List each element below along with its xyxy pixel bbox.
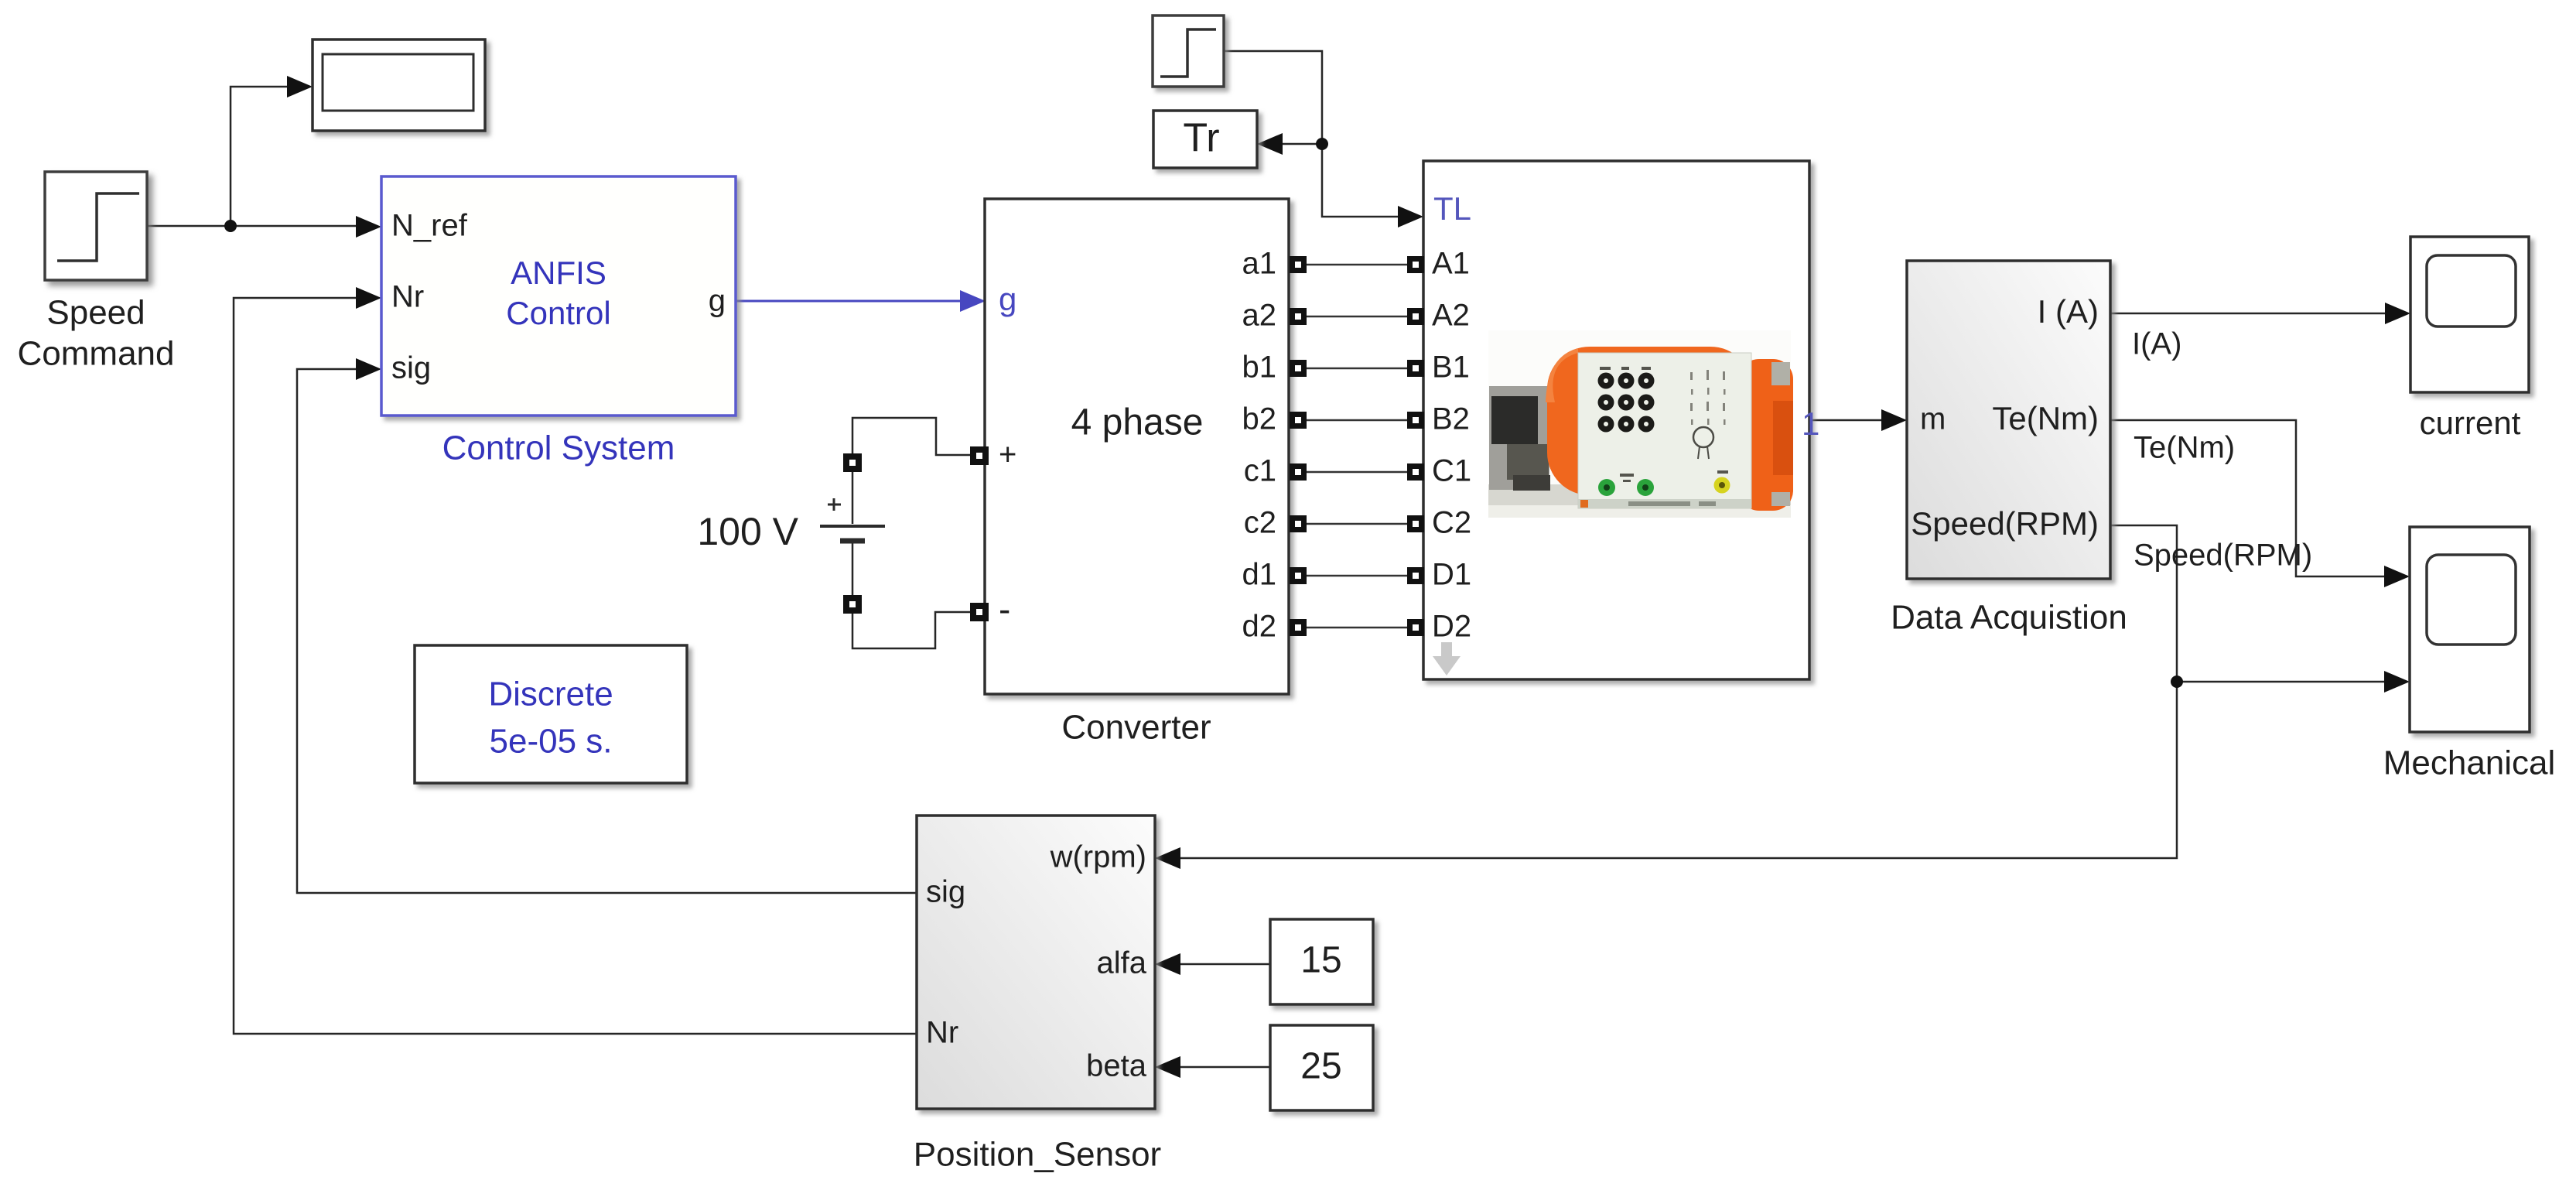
svg-text:g: g xyxy=(709,284,726,318)
svg-text:Speed(RPM): Speed(RPM) xyxy=(1911,505,2099,542)
svg-text:a2: a2 xyxy=(1242,299,1277,333)
svg-text:C2: C2 xyxy=(1432,506,1471,540)
svg-text:+: + xyxy=(999,438,1016,472)
svg-text:Speed(RPM): Speed(RPM) xyxy=(2134,539,2312,573)
svg-text:sig: sig xyxy=(391,351,431,385)
svg-text:B1: B1 xyxy=(1432,351,1470,385)
svg-text:sig: sig xyxy=(926,875,965,909)
svg-text:ANFIS: ANFIS xyxy=(511,255,606,291)
svg-text:a1: a1 xyxy=(1242,247,1277,281)
svg-text:g: g xyxy=(999,281,1016,317)
svg-text:beta: beta xyxy=(1086,1049,1147,1083)
svg-text:w(rpm): w(rpm) xyxy=(1050,840,1146,874)
svg-text:Speed: Speed xyxy=(46,294,145,332)
svg-text:Discrete: Discrete xyxy=(488,676,613,713)
svg-text:15: 15 xyxy=(1300,940,1341,981)
svg-text:25: 25 xyxy=(1300,1046,1341,1087)
svg-text:A2: A2 xyxy=(1432,299,1470,333)
svg-text:Command: Command xyxy=(18,335,175,373)
svg-text:4 phase: 4 phase xyxy=(1071,402,1204,443)
svg-text:d1: d1 xyxy=(1242,558,1277,592)
svg-text:A1: A1 xyxy=(1432,247,1470,281)
svg-text:I(A): I(A) xyxy=(2132,327,2181,361)
svg-text:Te(Nm): Te(Nm) xyxy=(1992,400,2099,436)
svg-text:Tr: Tr xyxy=(1183,116,1219,161)
svg-text:TL: TL xyxy=(1433,190,1471,227)
svg-text:C1: C1 xyxy=(1432,454,1471,488)
svg-text:m: m xyxy=(1920,402,1946,436)
svg-text:Data Acquistion: Data Acquistion xyxy=(1891,599,2127,637)
svg-text:Te(Nm): Te(Nm) xyxy=(2134,431,2235,465)
svg-text:B2: B2 xyxy=(1432,402,1470,436)
svg-text:b1: b1 xyxy=(1242,351,1277,385)
svg-text:D2: D2 xyxy=(1432,610,1471,644)
svg-text:Converter: Converter xyxy=(1061,709,1211,747)
svg-text:b2: b2 xyxy=(1242,402,1277,436)
svg-text:c1: c1 xyxy=(1244,454,1276,488)
svg-text:Nr: Nr xyxy=(926,1016,958,1050)
svg-text:current: current xyxy=(2420,405,2521,441)
svg-text:N_ref: N_ref xyxy=(391,209,468,243)
svg-text:d2: d2 xyxy=(1242,610,1277,644)
svg-text:Mechanical: Mechanical xyxy=(2383,744,2556,782)
svg-text:Control: Control xyxy=(506,295,610,331)
svg-text:D1: D1 xyxy=(1432,558,1471,592)
svg-text:100 V: 100 V xyxy=(697,510,798,553)
svg-text:Nr: Nr xyxy=(391,280,424,314)
svg-text:-: - xyxy=(999,589,1010,629)
svg-text:Control System: Control System xyxy=(442,429,675,467)
svg-text:I (A): I (A) xyxy=(2038,293,2099,330)
svg-text:5e-05 s.: 5e-05 s. xyxy=(490,723,613,761)
svg-text:c2: c2 xyxy=(1244,506,1276,540)
svg-text:Position_Sensor: Position_Sensor xyxy=(914,1136,1161,1174)
svg-text:alfa: alfa xyxy=(1097,946,1147,980)
svg-text:1: 1 xyxy=(1802,405,1819,442)
